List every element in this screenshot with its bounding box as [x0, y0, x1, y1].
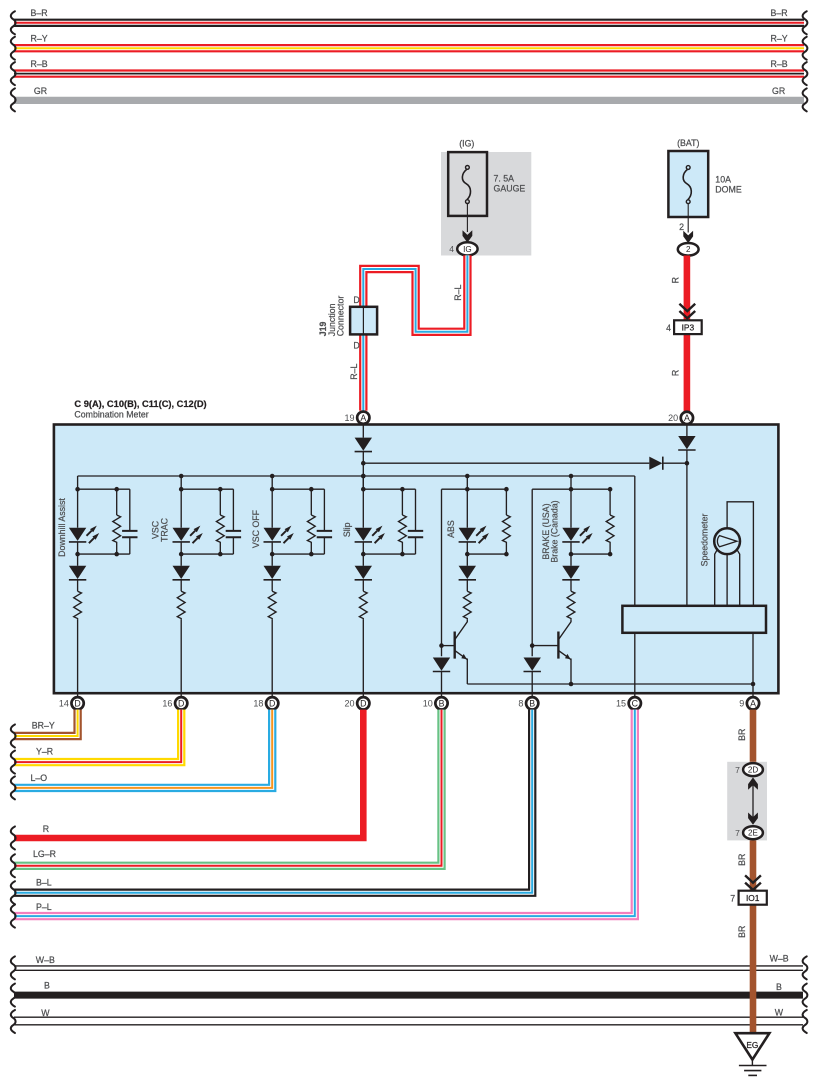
gray shading box around 2D/2E connectors [727, 762, 767, 841]
wire diode to bus junctions [362, 452, 364, 490]
svg-text:BR–Y: BR–Y [32, 720, 55, 730]
wire LED to diode [180, 543, 182, 566]
parallel merge wire [272, 553, 324, 555]
svg-text:BR: BR [737, 926, 747, 938]
fuse DOME element [683, 166, 691, 204]
svg-text:R: R [671, 277, 681, 283]
parallel capacitor [232, 489, 234, 531]
parallel split wire [363, 488, 415, 490]
svg-text:D: D [269, 699, 275, 709]
svg-text:4: 4 [666, 323, 671, 333]
connector oval IG pin 4 [457, 242, 477, 255]
svg-text:R–B: R–B [771, 59, 788, 69]
speedometer middle wire [726, 554, 728, 606]
wire to terminal 16(D) [180, 620, 182, 696]
svg-text:R: R [43, 824, 49, 834]
svg-text:10A: 10A [715, 175, 731, 185]
svg-text:Slip: Slip [342, 522, 352, 537]
svg-text:7: 7 [730, 893, 735, 903]
series diode [562, 566, 579, 580]
svg-text:15: 15 [616, 699, 626, 709]
bus wire to right diode [363, 462, 649, 464]
arrowhead into IG connector [463, 230, 473, 242]
wire R-L from IG fuse to combination meter via J19 [363, 255, 467, 410]
connector IP3 pin 4 [674, 320, 702, 334]
LED indicator [355, 526, 385, 544]
series resistor [463, 591, 471, 620]
arrowhead into connector 2 [683, 231, 693, 243]
LED indicator [173, 526, 203, 544]
svg-text:BR: BR [737, 854, 747, 866]
wire bus to 15(C) drop [634, 476, 636, 606]
continuation squiggle W right [803, 1010, 808, 1033]
svg-text:D: D [74, 699, 80, 709]
junction dot at bus [270, 474, 275, 479]
wire diode to resistor [362, 580, 364, 591]
speedometer top wire [727, 502, 753, 606]
svg-text:9: 9 [739, 699, 744, 709]
terminal 19(A) [357, 412, 369, 424]
parallel merge wire [571, 553, 610, 555]
continuation squiggle R-B right [803, 62, 808, 85]
continuation squiggle B-L [11, 881, 16, 904]
continuation squiggle W-B left [11, 956, 16, 979]
connector oval 2D pin 7 [743, 763, 763, 776]
svg-text:10: 10 [423, 699, 433, 709]
terminal 20(D) [357, 697, 369, 709]
svg-text:18: 18 [253, 699, 263, 709]
series diode [69, 566, 86, 580]
continuation squiggle W-B right [803, 956, 808, 979]
svg-text:GR: GR [772, 86, 785, 96]
wire W (bottom horizontal) [14, 1016, 803, 1018]
connector oval 2E pin 7 [743, 826, 763, 839]
svg-text:B: B [439, 699, 445, 709]
svg-text:(BAT): (BAT) [677, 138, 699, 148]
diode toward 20(A) branch (horizontal) [649, 457, 662, 470]
parallel split wire [272, 488, 324, 490]
junction dot at bus [179, 474, 184, 479]
continuation squiggle B-R right [803, 11, 808, 34]
series resistor [567, 591, 575, 620]
speedometer symbol [714, 528, 740, 554]
wire LED to diode [570, 543, 572, 566]
svg-text:R–L: R–L [453, 285, 463, 301]
series resistor [268, 591, 276, 620]
transistor emitter with arrow [455, 650, 468, 659]
bottom diode to terminal [524, 658, 541, 672]
series resistor [177, 591, 185, 620]
connector IO1 pin 7 [739, 891, 767, 905]
svg-text:A: A [750, 699, 756, 709]
continuation squiggle R-B left [11, 62, 16, 85]
parallel merge wire [363, 553, 415, 555]
series resistor [74, 591, 82, 620]
svg-text:B–R: B–R [31, 8, 48, 18]
wire from fuse to connector 2 [687, 204, 689, 233]
wire BR from 9(A) to ground [750, 710, 757, 1033]
wire R-Y (top horizontal) [14, 44, 804, 52]
terminal 15(C) [629, 697, 641, 709]
svg-text:19: 19 [345, 413, 355, 423]
terminal 10(B) [435, 697, 447, 709]
parallel capacitor [129, 489, 131, 531]
junction dot at bus [465, 474, 470, 479]
terminal 16(D) [175, 697, 187, 709]
transistor collector wire [558, 620, 571, 640]
wire R to 20(D) [14, 710, 363, 838]
svg-text:2D: 2D [748, 766, 759, 775]
svg-text:(IG): (IG) [459, 139, 474, 149]
svg-text:W: W [41, 1008, 50, 1018]
ground symbol hatches [751, 1060, 753, 1066]
parallel resistor [219, 489, 221, 515]
branch vertical from bus [271, 476, 273, 528]
wire BR-Y to 14(D) [14, 710, 78, 736]
continuation squiggle B right [803, 984, 808, 1007]
svg-text:B–L: B–L [36, 877, 52, 887]
svg-text:7: 7 [735, 765, 740, 775]
wire from terminal 19(A) down to diode [362, 424, 364, 438]
svg-text:B–R: B–R [771, 8, 788, 18]
wire P-L to 15(C) [14, 710, 635, 917]
junction dot at bus [569, 474, 574, 479]
speedometer right wire [737, 550, 740, 606]
series resistor [359, 591, 367, 620]
wire B-L to 8(B) [14, 710, 532, 893]
wire B (bottom horizontal) [14, 992, 803, 999]
svg-text:DOME: DOME [715, 185, 742, 195]
bottom diode to terminal [433, 658, 450, 672]
continuation squiggle LG-R [11, 854, 16, 877]
svg-text:14: 14 [59, 699, 69, 709]
svg-text:R–Y: R–Y [31, 34, 48, 44]
emitter wire down [570, 659, 572, 685]
left rail from split to base/diode [532, 488, 571, 490]
branch vertical from bus [570, 476, 572, 528]
svg-text:LG–R: LG–R [33, 849, 56, 859]
series diode [264, 566, 281, 580]
wire to terminal 20(D) [362, 620, 364, 696]
fuse GAUGE element [462, 166, 470, 204]
svg-text:8: 8 [518, 699, 523, 709]
meter circuit board block [622, 606, 766, 633]
svg-text:ABS: ABS [446, 520, 456, 538]
svg-text:Speedometer: Speedometer [700, 514, 710, 567]
wire diode to resistor [271, 580, 273, 591]
parallel split wire [181, 488, 233, 490]
series diode [355, 566, 372, 580]
svg-text:Downhill Assist: Downhill Assist [57, 498, 67, 557]
branch vertical from bus [180, 476, 182, 528]
svg-text:R–Y: R–Y [771, 34, 788, 44]
diode below 19(A) [355, 438, 372, 452]
wire to terminal 18(D) [271, 620, 273, 696]
continuation squiggle B left [11, 984, 16, 1007]
svg-text:IO1: IO1 [746, 893, 760, 903]
wire from terminal 20(A) down to diode [686, 425, 688, 436]
svg-text:W–B: W–B [36, 955, 55, 965]
continuation squiggle L-O [11, 776, 16, 799]
splice chevron on R wire [679, 304, 695, 319]
continuation squiggle W left [11, 1010, 16, 1033]
continuation squiggle BR-Y [11, 725, 16, 748]
svg-text:IG: IG [463, 245, 472, 254]
terminal 8(B) [526, 697, 538, 709]
svg-text:D: D [353, 295, 359, 305]
terminal 9(A) [747, 697, 759, 709]
svg-text:B: B [776, 982, 782, 992]
parallel capacitor [323, 489, 325, 531]
parallel merge wire [467, 553, 506, 555]
parallel split wire [571, 488, 610, 490]
svg-text:Combination Meter: Combination Meter [74, 410, 148, 420]
svg-text:A: A [360, 413, 366, 423]
terminal 14(D) [71, 697, 83, 709]
parallel split wire [78, 488, 130, 490]
wire GR (top horizontal) [14, 97, 804, 104]
svg-text:B: B [44, 981, 50, 991]
svg-text:20: 20 [668, 413, 678, 423]
svg-text:D: D [360, 699, 366, 709]
transistor base bar [454, 632, 456, 659]
continuation squiggle R [11, 827, 16, 850]
svg-text:2E: 2E [748, 829, 759, 838]
branch vertical from bus [466, 476, 468, 528]
wire diode to resistor [77, 580, 79, 591]
series diode [459, 566, 476, 580]
fuse GAUGE rectangle [448, 152, 487, 216]
transistor collector wire [455, 620, 468, 640]
junction connector J19 box [350, 307, 377, 335]
continuation squiggle R-Y right [803, 37, 808, 60]
parallel merge wire [181, 553, 233, 555]
svg-text:Y–R: Y–R [36, 746, 53, 756]
svg-text:BR: BR [737, 729, 747, 741]
svg-text:2: 2 [679, 222, 684, 232]
svg-text:2: 2 [686, 245, 691, 254]
svg-text:D: D [353, 340, 359, 350]
junction dot at 20(A) vertical [685, 461, 690, 466]
svg-text:B: B [529, 699, 535, 709]
parallel resistor [609, 489, 611, 515]
junction dot at bus [361, 474, 366, 479]
svg-text:R–B: R–B [31, 59, 48, 69]
svg-text:D: D [178, 699, 184, 709]
link arrow between 2D and 2E [752, 779, 754, 823]
svg-text:W–B: W–B [770, 954, 789, 964]
svg-text:Connector: Connector [335, 296, 345, 337]
diode below 20(A) [678, 436, 695, 450]
parallel resistor [401, 489, 403, 515]
wire diode to 20(A) vertical [663, 462, 687, 464]
svg-text:20: 20 [345, 699, 355, 709]
svg-text:16: 16 [162, 699, 172, 709]
connector oval 2 [678, 243, 699, 256]
svg-text:7: 7 [735, 828, 740, 838]
wire R-B (top horizontal) [14, 69, 804, 77]
transistor base wire junction [532, 645, 558, 647]
wire diode to resistor [570, 580, 572, 591]
svg-text:7. 5A: 7. 5A [494, 174, 515, 184]
svg-text:VSC OFF: VSC OFF [251, 509, 261, 548]
wire from fuse to IG connector [466, 203, 468, 232]
branch vertical from bus [362, 476, 364, 528]
series diode [173, 566, 190, 580]
svg-text:TRAC: TRAC [159, 517, 169, 542]
wire LED to diode [271, 543, 273, 566]
svg-text:4: 4 [449, 244, 454, 254]
LED indicator [69, 526, 99, 544]
svg-text:R–L: R–L [349, 364, 359, 380]
svg-text:R: R [671, 370, 681, 376]
LED indicator [459, 526, 489, 544]
parallel resistor [116, 489, 118, 515]
wire LED to diode [77, 543, 79, 566]
svg-text:Brake (Canada): Brake (Canada) [550, 500, 560, 562]
fuse DOME rectangle [668, 151, 708, 217]
continuation squiggle B-R left [11, 11, 16, 34]
svg-text:A: A [684, 413, 690, 423]
svg-text:IP3: IP3 [682, 323, 695, 333]
continuation squiggle Y-R [11, 751, 16, 774]
transistor emitter with arrow [558, 650, 571, 659]
terminal 18(D) [266, 697, 278, 709]
svg-text:GAUGE: GAUGE [494, 184, 526, 194]
wire Y-R to 16(D) [14, 710, 181, 763]
parallel capacitor [415, 489, 417, 531]
svg-text:C: C [632, 699, 639, 709]
parallel merge wire [78, 553, 130, 555]
wire LG-R to 10(B) [14, 710, 442, 866]
splice chevron on BR wire [745, 875, 761, 890]
wire LED to diode [362, 543, 364, 566]
wire W-B (bottom horizontal) [14, 965, 803, 967]
continuation squiggle GR left [11, 88, 16, 111]
svg-text:W: W [775, 1008, 784, 1018]
terminal 20(A) [681, 412, 693, 424]
wire B-R (top horizontal) [14, 19, 804, 27]
combination meter block [54, 425, 779, 694]
parallel split wire [467, 488, 506, 490]
left rail from split to base/diode [442, 488, 468, 490]
continuation squiggle R-Y left [11, 37, 16, 60]
svg-text:GR: GR [34, 86, 47, 96]
wire to terminal 14(D) [77, 620, 79, 696]
parallel resistor [505, 489, 507, 515]
junction dot bus1/19A [361, 461, 366, 466]
junction dot bus2/19A [361, 474, 366, 479]
wire LED to diode [466, 543, 468, 566]
LED indicator [264, 526, 294, 544]
svg-text:L–O: L–O [31, 773, 48, 783]
speedometer left wire [715, 550, 718, 606]
ground triangle EG [735, 1033, 769, 1059]
wire board to 15(C) [634, 633, 636, 696]
gray shading box around GAUGE fuse [441, 152, 531, 256]
wire L-O to 18(D) [14, 710, 272, 788]
parallel resistor [310, 489, 312, 515]
transistor base bar [557, 632, 559, 659]
branch vertical from bus [77, 476, 79, 528]
continuation squiggle GR right [803, 88, 808, 111]
wire diode to resistor [180, 580, 182, 591]
LED indicator [562, 526, 592, 544]
transistor base wire junction [442, 645, 455, 647]
wire R from DOME fuse to combination meter [684, 256, 691, 412]
emitter bus wire to 9(A) [467, 683, 753, 685]
wire 20(A) diode down to gauge unit [686, 450, 688, 606]
svg-text:P–L: P–L [36, 902, 52, 912]
indicator bus wire [78, 475, 635, 477]
wire diode to resistor [466, 580, 468, 591]
wire board to 9(A) [752, 633, 754, 696]
emitter wire down [466, 659, 468, 685]
svg-text:EG: EG [746, 1040, 758, 1050]
svg-text:C 9(A), C10(B), C11(C), C12(D): C 9(A), C10(B), C11(C), C12(D) [74, 399, 206, 409]
continuation squiggle P-L [11, 905, 16, 928]
